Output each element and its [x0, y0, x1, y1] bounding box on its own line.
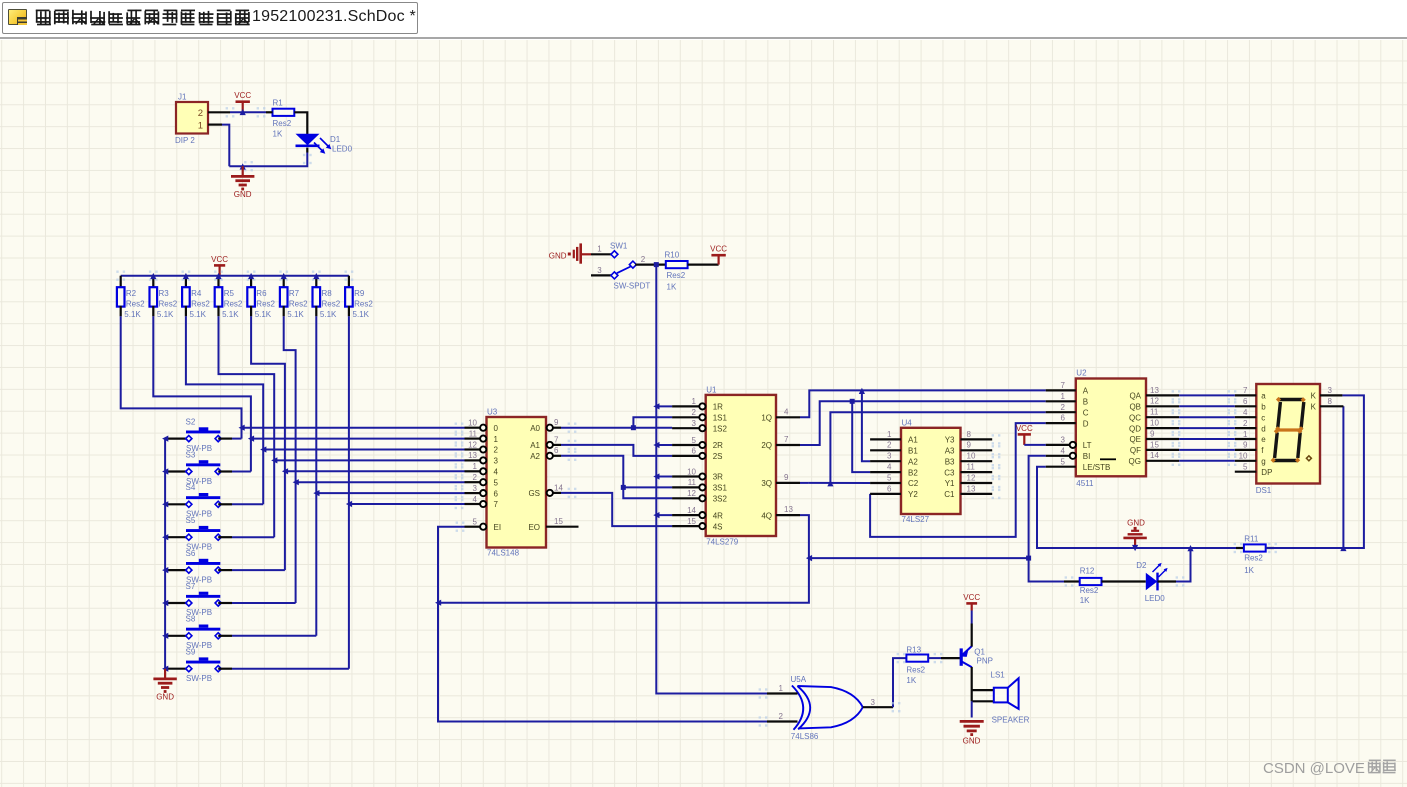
ground GND SW1: [549, 243, 591, 263]
wire A1 to 2S: [561, 440, 672, 456]
svg-text:C1: C1: [944, 490, 955, 499]
svg-text:Y1: Y1: [945, 479, 955, 488]
svg-text:11: 11: [967, 463, 976, 472]
svg-text:VCC: VCC: [1016, 424, 1033, 433]
svg-text:QD: QD: [1129, 424, 1141, 433]
svg-text:2S: 2S: [713, 452, 723, 461]
svg-text:1: 1: [887, 430, 892, 439]
svg-text:10: 10: [1239, 452, 1248, 461]
junction A0 jog: [631, 425, 636, 430]
svg-text:9: 9: [1243, 441, 1248, 450]
switch S5: [165, 516, 232, 552]
switch S2: [165, 417, 232, 453]
svg-text:PNP: PNP: [977, 656, 993, 665]
wire channel7 to U3 pin 7: [349, 499, 465, 509]
svg-text:1K: 1K: [1080, 596, 1090, 605]
svg-text:3: 3: [494, 457, 499, 466]
svg-text:2R: 2R: [713, 441, 723, 450]
wire R1 to D1: [294, 112, 307, 134]
svg-text:10: 10: [468, 419, 477, 428]
wire D2 up to 548: [1158, 548, 1191, 587]
connector J1: [175, 93, 208, 146]
svg-text:2: 2: [198, 108, 203, 119]
svg-text:6: 6: [554, 446, 559, 455]
svg-text:A2: A2: [530, 452, 540, 461]
wire channel0 to U3 pin 0: [242, 423, 465, 433]
resistor R13: [897, 645, 943, 685]
svg-text:5: 5: [473, 518, 478, 527]
power VCC SW1: [710, 245, 727, 265]
svg-text:U5A: U5A: [791, 675, 807, 684]
wire channel6 to U3 pin 6: [316, 488, 464, 498]
wire R6 to S6 channel: [251, 316, 285, 570]
svg-text:EO: EO: [528, 523, 540, 532]
wire channel4 to U3 pin 4: [285, 466, 465, 476]
svg-text:B2: B2: [908, 468, 918, 477]
junction rail S6: [162, 567, 168, 573]
svg-text:4: 4: [494, 468, 499, 477]
svg-text:R7: R7: [289, 289, 300, 298]
wire S2 to channel: [232, 438, 242, 440]
svg-text:3: 3: [692, 419, 697, 428]
wire LE net: [1037, 467, 1244, 548]
junction SW1net 2R: [653, 442, 659, 448]
svg-text:K: K: [1311, 403, 1317, 412]
svg-text:Res2: Res2: [256, 299, 275, 308]
svg-text:3: 3: [1061, 436, 1066, 445]
svg-text:5: 5: [1061, 457, 1066, 466]
svg-text:5: 5: [692, 436, 697, 445]
junction 558 right: [1026, 556, 1031, 561]
svg-text:K: K: [1311, 392, 1317, 401]
svg-text:QG: QG: [1129, 457, 1141, 466]
wire J1 pin1: [208, 123, 222, 125]
svg-text:C3: C3: [944, 468, 955, 477]
svg-text:3S1: 3S1: [713, 484, 728, 493]
wire U4 Y2 to U2 D row: [870, 423, 1046, 537]
svg-text:GND: GND: [156, 693, 174, 702]
wire S5 to channel: [232, 536, 274, 538]
ground GND switches: [153, 669, 176, 702]
junction GND-J1: [240, 163, 246, 169]
svg-text:13: 13: [784, 505, 793, 514]
junction A row: [859, 388, 865, 394]
wire R3 to S3 channel: [153, 316, 251, 471]
svg-text:14: 14: [554, 483, 563, 492]
wire EI net: [438, 522, 767, 722]
svg-text:LT: LT: [1083, 441, 1092, 450]
svg-text:A0: A0: [530, 424, 540, 433]
switch S7: [165, 582, 232, 617]
svg-text:2: 2: [779, 712, 784, 721]
junction 3Q net: [827, 480, 833, 486]
svg-text:6: 6: [1243, 397, 1248, 406]
junction GND rail: [1132, 545, 1138, 551]
junction rail S8: [162, 633, 168, 639]
wire R8 to S8 channel: [315, 316, 317, 636]
wire R7 to S7 channel: [284, 316, 296, 603]
svg-text:Res2: Res2: [667, 271, 686, 280]
svg-text:B1: B1: [908, 447, 918, 456]
svg-text:2: 2: [641, 255, 646, 264]
junction bus R8: [313, 273, 319, 279]
svg-text:10: 10: [967, 452, 976, 461]
svg-text:R12: R12: [1080, 567, 1095, 576]
svg-text:GND: GND: [1127, 519, 1145, 528]
svg-text:DIP 2: DIP 2: [175, 136, 195, 145]
wire S4 to channel: [232, 503, 263, 505]
svg-text:2: 2: [494, 446, 499, 455]
svg-text:5.1K: 5.1K: [222, 310, 239, 319]
wire A2 to 3S1 3S2: [561, 451, 672, 499]
wire S8 to channel: [232, 635, 316, 637]
svg-text:SW1: SW1: [610, 242, 628, 251]
wire QC to segment: [1172, 412, 1237, 422]
svg-text:9: 9: [554, 418, 559, 427]
svg-text:Res2: Res2: [289, 299, 308, 308]
svg-text:4: 4: [1243, 408, 1248, 417]
svg-text:3: 3: [887, 452, 892, 461]
svg-text:5: 5: [494, 478, 499, 487]
svg-text:6: 6: [887, 484, 892, 493]
wire S9 to channel: [232, 668, 349, 670]
svg-text:U2: U2: [1076, 369, 1087, 378]
svg-text:1: 1: [473, 462, 478, 471]
wire S7 to channel: [232, 602, 296, 604]
svg-text:7: 7: [494, 500, 499, 509]
svg-text:7: 7: [784, 435, 789, 444]
op-amp U4 74LS27: [870, 419, 1000, 525]
svg-text:U3: U3: [487, 408, 498, 417]
svg-text:5.1K: 5.1K: [287, 310, 304, 319]
op-amp U3 74LS148: [465, 408, 579, 558]
svg-text:5: 5: [1243, 463, 1248, 472]
junction channel1 to U3 pin1: [248, 436, 254, 442]
svg-text:Q1: Q1: [974, 648, 985, 657]
junction rail S5: [162, 534, 168, 540]
svg-text:1: 1: [692, 397, 697, 406]
wire QG to segment: [1172, 456, 1237, 466]
svg-text:R4: R4: [191, 289, 202, 298]
wire U5A out to R13: [892, 658, 907, 712]
svg-text:4: 4: [473, 495, 478, 504]
svg-text:12: 12: [967, 473, 976, 482]
resistor R1: [266, 98, 294, 138]
svg-text:5.1K: 5.1K: [157, 310, 174, 319]
wire 3Q to U4 C2: [800, 482, 870, 484]
svg-text:5.1K: 5.1K: [124, 310, 141, 319]
svg-text:5.1K: 5.1K: [255, 310, 272, 319]
svg-text:11: 11: [469, 429, 478, 438]
svg-text:Res2: Res2: [906, 665, 925, 674]
wire BI net: [1029, 456, 1064, 582]
wire S3 to channel: [232, 471, 251, 473]
svg-text:Res2: Res2: [159, 299, 178, 308]
resistor R12: [1064, 567, 1102, 606]
wire R9 to S9 channel: [348, 316, 350, 668]
svg-text:4: 4: [784, 407, 789, 416]
svg-text:8: 8: [967, 430, 972, 439]
svg-text:12: 12: [687, 489, 696, 498]
svg-text:15: 15: [1150, 440, 1159, 449]
svg-text:DP: DP: [1261, 468, 1272, 477]
wire VCC bus: [121, 275, 349, 277]
wire SW1net to U1 3R: [656, 476, 672, 478]
diode D1: [296, 134, 353, 154]
speaker LS1: [972, 670, 1030, 724]
svg-text:c: c: [1261, 413, 1265, 422]
junction B row: [850, 399, 855, 404]
svg-text:R1: R1: [273, 98, 284, 107]
junction SW1net 3R: [653, 473, 659, 479]
svg-text:A: A: [1083, 387, 1089, 396]
svg-text:9: 9: [967, 441, 972, 450]
wire Q1 to speaker: [971, 667, 973, 701]
svg-text:3: 3: [1328, 386, 1333, 395]
junction rail S7: [162, 600, 168, 606]
svg-text:QC: QC: [1129, 413, 1141, 422]
svg-text:A2: A2: [908, 457, 918, 466]
svg-text:1R: 1R: [713, 403, 723, 412]
resistor R8: [312, 271, 341, 320]
resistor R6: [247, 271, 276, 320]
svg-text:1K: 1K: [667, 283, 677, 292]
wire SW1net to U1 4R: [656, 514, 672, 516]
svg-text:6: 6: [494, 489, 499, 498]
op-amp U5A 74LS86: [759, 675, 893, 741]
junction bus R3: [150, 273, 156, 279]
svg-text:Res2: Res2: [1080, 586, 1099, 595]
wire B row to U4 B2: [852, 401, 870, 472]
junction SW1 net: [654, 262, 659, 267]
svg-text:1: 1: [198, 121, 203, 132]
junction K8 rail: [1340, 545, 1346, 551]
junction bus R4: [183, 273, 189, 279]
svg-text:9: 9: [784, 473, 789, 482]
junction J1-VCC: [240, 109, 246, 115]
resistor R3: [149, 271, 178, 320]
svg-text:S5: S5: [186, 516, 196, 525]
svg-text:QF: QF: [1130, 446, 1141, 455]
svg-text:Res2: Res2: [224, 299, 243, 308]
svg-text:A3: A3: [945, 447, 955, 456]
junction bus R7: [281, 273, 287, 279]
wire D1 to GND: [222, 125, 312, 172]
svg-text:5.1K: 5.1K: [353, 310, 370, 319]
svg-text:S9: S9: [186, 648, 196, 657]
svg-text:1: 1: [597, 245, 602, 254]
svg-text:QA: QA: [1129, 392, 1141, 401]
svg-text:Res2: Res2: [191, 299, 210, 308]
ground GND J1: [231, 166, 254, 199]
svg-text:D1: D1: [330, 135, 341, 144]
svg-text:4511: 4511: [1076, 479, 1094, 488]
wire R12 to D2: [1102, 580, 1146, 582]
svg-text:12: 12: [468, 440, 477, 449]
svg-text:6: 6: [692, 447, 697, 456]
wire QB to segment: [1172, 401, 1237, 411]
junction D2 riser: [1187, 545, 1193, 551]
wire QF to segment: [1172, 445, 1237, 455]
switch S3: [165, 450, 232, 486]
svg-text:R11: R11: [1244, 534, 1259, 543]
svg-text:B: B: [1083, 398, 1088, 407]
svg-text:0: 0: [494, 424, 499, 433]
svg-text:a: a: [1261, 392, 1266, 401]
power VCC J1: [234, 91, 251, 112]
wire 558 horizontal: [809, 557, 1029, 559]
junction channel6 to U3 pin6: [313, 490, 319, 496]
junction 4Q at EI: [435, 600, 441, 606]
junction channel2 to U3 pin2: [260, 446, 266, 452]
wire R10 to VCC: [688, 264, 719, 266]
svg-text:S6: S6: [186, 549, 196, 558]
svg-text:2: 2: [887, 441, 892, 450]
wire VCC to LT: [1024, 444, 1045, 446]
svg-text:14: 14: [1150, 451, 1159, 460]
svg-text:S2: S2: [186, 417, 196, 426]
svg-text:C: C: [1083, 408, 1089, 417]
wire channel5 to U3 pin 5: [296, 477, 465, 487]
resistor R4: [182, 271, 211, 320]
power VCC resistor bank: [211, 255, 228, 276]
wire QA to segment: [1172, 390, 1237, 400]
power VCC LT: [1016, 424, 1033, 445]
svg-text:3R: 3R: [713, 473, 723, 482]
svg-text:1: 1: [494, 435, 499, 444]
wire SW1net to U1 2R: [656, 444, 672, 446]
resistor R5: [214, 271, 243, 320]
svg-text:4: 4: [1061, 446, 1066, 455]
svg-text:e: e: [1261, 435, 1266, 444]
wire QE to segment: [1172, 434, 1237, 444]
svg-text:SW-PB: SW-PB: [186, 674, 212, 683]
svg-text:15: 15: [554, 517, 563, 526]
junction channel0 to U3 pin0: [239, 425, 245, 431]
svg-text:1: 1: [1243, 430, 1248, 439]
svg-text:1Q: 1Q: [761, 414, 772, 423]
svg-text:Res2: Res2: [273, 119, 292, 128]
svg-text:8: 8: [1328, 397, 1333, 406]
svg-text:VCC: VCC: [710, 245, 727, 254]
wire VCC to Q1: [971, 611, 973, 647]
op-amp U1 74LS279: [672, 386, 800, 547]
wire SW1 pin2 to R10: [635, 264, 666, 266]
junction SW1net 1R: [653, 403, 659, 409]
svg-text:LS1: LS1: [991, 670, 1006, 679]
wire channel1 to U3 pin 1: [251, 433, 465, 443]
svg-text:d: d: [1261, 424, 1265, 433]
junction bus R6: [248, 273, 254, 279]
svg-text:74LS148: 74LS148: [487, 549, 520, 558]
ground GND speaker: [960, 721, 984, 745]
resistor R2: [116, 271, 145, 320]
svg-text:2: 2: [1243, 419, 1248, 428]
wire switch ground rail: [164, 439, 166, 669]
switch SW1: [591, 242, 650, 291]
svg-text:9: 9: [1150, 429, 1155, 438]
wire R4 to S4 channel: [186, 316, 263, 504]
svg-text:R8: R8: [322, 289, 333, 298]
svg-text:7: 7: [554, 435, 559, 444]
svg-text:5.1K: 5.1K: [320, 310, 337, 319]
svg-text:S7: S7: [186, 582, 196, 591]
wire 1Q to U2 A row: [800, 390, 1046, 417]
svg-text:Res2: Res2: [354, 299, 373, 308]
svg-text:GS: GS: [528, 489, 540, 498]
svg-text:QE: QE: [1129, 435, 1141, 444]
svg-text:VCC: VCC: [963, 593, 980, 602]
svg-text:1S1: 1S1: [713, 414, 728, 423]
op-amp U2 4511: [1046, 369, 1180, 489]
junction channel4 to U3 pin4: [282, 468, 288, 474]
wire channel2 to U3 pin 2: [263, 444, 464, 454]
svg-text:LED0: LED0: [1145, 594, 1166, 603]
svg-text:GND: GND: [234, 190, 252, 199]
svg-text:D2: D2: [1136, 561, 1147, 570]
svg-text:5: 5: [887, 473, 892, 482]
svg-text:7: 7: [1243, 386, 1248, 395]
junction SW1net 4R: [653, 512, 659, 518]
svg-text:12: 12: [1150, 397, 1159, 406]
svg-text:QB: QB: [1129, 403, 1141, 412]
wire R5 to S5 channel: [219, 316, 275, 537]
junction A2 jog: [621, 485, 626, 490]
resistor R9: [345, 271, 374, 320]
svg-text:13: 13: [468, 451, 477, 460]
switch S9: [165, 648, 232, 684]
svg-text:3S2: 3S2: [713, 495, 728, 504]
svg-text:11: 11: [1150, 408, 1159, 417]
svg-text:U4: U4: [902, 419, 913, 428]
wire R13 to Q1: [928, 657, 960, 659]
wire 2Q to U2 B row: [800, 401, 1046, 445]
svg-text:A1: A1: [530, 441, 540, 450]
junction channel7 to U3 pin7: [346, 501, 352, 507]
svg-text:1S2: 1S2: [713, 424, 728, 433]
svg-text:3: 3: [871, 698, 876, 707]
svg-text:R5: R5: [224, 289, 235, 298]
svg-text:2: 2: [473, 473, 478, 482]
svg-text:b: b: [1261, 403, 1266, 412]
wire speaker to GND: [971, 701, 973, 717]
svg-text:Res2: Res2: [1244, 554, 1263, 563]
svg-text:VCC: VCC: [211, 255, 228, 264]
svg-text:13: 13: [1150, 386, 1159, 395]
svg-text:R13: R13: [906, 645, 921, 654]
svg-text:SPEAKER: SPEAKER: [992, 716, 1030, 725]
svg-text:1: 1: [779, 684, 784, 693]
wire J1 pin2: [208, 107, 266, 117]
svg-text:R3: R3: [159, 289, 170, 298]
svg-text:3: 3: [597, 266, 602, 275]
svg-text:S3: S3: [186, 450, 196, 459]
ground GND rail: [1123, 519, 1146, 549]
junction rail S3: [162, 468, 168, 474]
svg-text:15: 15: [687, 517, 696, 526]
switch S8: [165, 615, 232, 651]
svg-text:14: 14: [687, 506, 696, 515]
svg-text:S8: S8: [186, 615, 196, 624]
wire SW1net to U1 1R: [656, 405, 672, 407]
wire A0 to 1S1 1S2: [561, 417, 672, 433]
svg-text:74LS279: 74LS279: [706, 538, 739, 547]
junction rail S9: [162, 666, 168, 672]
display DS1: [1235, 384, 1344, 495]
wire channel3 to U3 pin 3: [274, 455, 464, 465]
switch S4: [165, 483, 232, 518]
svg-text:6: 6: [1061, 414, 1066, 423]
